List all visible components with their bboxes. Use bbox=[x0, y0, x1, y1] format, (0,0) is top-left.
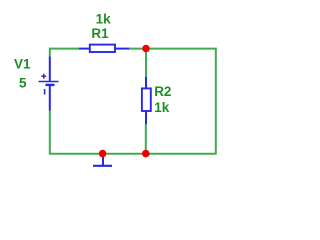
voltage source V1 positive plate bbox=[39, 81, 59, 83]
svg-text:V1: V1 bbox=[14, 57, 31, 72]
svg-text:1k: 1k bbox=[154, 100, 170, 115]
voltage source V1 plus polarity mark bbox=[41, 74, 46, 79]
wire: top rail left segment + left rail top (node from V1 plus to R1) bbox=[50, 49, 79, 57]
svg-text:R1: R1 bbox=[91, 26, 109, 41]
wire: R2 bottom node segment bbox=[145, 124, 147, 153]
voltage source V1 negative plate bbox=[46, 84, 55, 86]
ground symbol stem bbox=[102, 154, 104, 166]
voltage source V1 top pin lead bbox=[49, 56, 51, 81]
resistor R2 body bbox=[142, 88, 151, 111]
resistor R1 left pin lead bbox=[79, 48, 90, 50]
resistor R1 body bbox=[90, 45, 115, 52]
junction dot: R2 bottom node bbox=[142, 150, 150, 158]
voltage source V1 minus polarity mark (rotated) bbox=[44, 89, 46, 95]
voltage source V1 bottom pin lead bbox=[49, 85, 51, 111]
svg-text:5: 5 bbox=[19, 75, 27, 90]
wire: top rail right, right rail, bottom rail, left rail bottom (outer loop) bbox=[50, 49, 216, 154]
junction dot: ground node bbox=[99, 150, 107, 158]
svg-text:1k: 1k bbox=[96, 11, 112, 26]
junction dot: R1/R2/right rail node bbox=[142, 45, 150, 53]
resistor R2 top pin lead bbox=[145, 77, 147, 88]
wire: R2 top node segment bbox=[145, 49, 147, 77]
svg-text:R2: R2 bbox=[154, 84, 171, 99]
resistor R1 right pin lead bbox=[115, 48, 129, 50]
ground symbol bar bbox=[93, 165, 112, 167]
resistor R2 bottom pin lead bbox=[145, 111, 147, 124]
